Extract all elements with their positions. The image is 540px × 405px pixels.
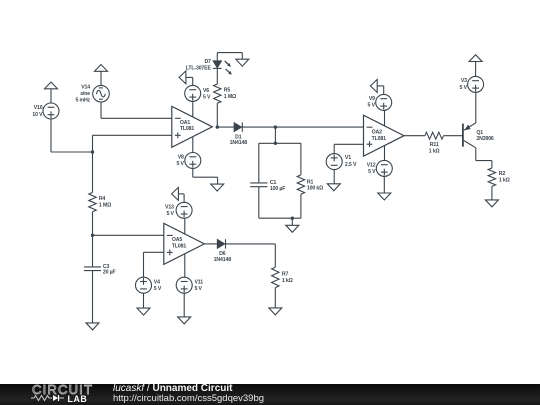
- ground under C3: [86, 323, 99, 330]
- svg-text:100 kΩ: 100 kΩ: [307, 186, 323, 192]
- wire Q1 emitter to V3: [475, 92, 477, 123]
- svg-text:V14: V14: [81, 85, 90, 91]
- wire OA1 V- pin: [192, 137, 194, 152]
- svg-text:V4: V4: [154, 280, 160, 286]
- wire R7 to ground: [274, 288, 276, 308]
- svg-text:OA1: OA1: [180, 120, 190, 126]
- svg-text:20 µF: 20 µF: [103, 270, 116, 276]
- ground under V12: [378, 193, 391, 200]
- wire D1 to OA2 - input: [242, 126, 363, 128]
- svg-text:1 kΩ: 1 kΩ: [429, 149, 440, 155]
- svg-text:100 µF: 100 µF: [270, 186, 285, 192]
- power flag (left arrow) for V13: [172, 187, 185, 202]
- svg-text:V3: V3: [461, 78, 467, 84]
- voltage source V9: [368, 94, 392, 110]
- svg-text:R4: R4: [99, 196, 106, 202]
- wire C3 to ground: [92, 271, 94, 323]
- svg-text:1N4148: 1N4148: [214, 257, 232, 263]
- capacitor C1: [250, 180, 285, 192]
- svg-text:V1: V1: [345, 155, 351, 161]
- svg-text:5 V: 5 V: [176, 161, 184, 167]
- voltage source V3: [460, 76, 484, 92]
- svg-text:V13: V13: [165, 205, 174, 211]
- wire to ground under rail: [291, 218, 293, 225]
- svg-text:R1: R1: [307, 179, 314, 185]
- voltage source V10: [32, 103, 59, 119]
- svg-text:5 V: 5 V: [154, 286, 162, 292]
- op-amp OA1: [172, 106, 213, 147]
- svg-text:1N4148: 1N4148: [230, 140, 248, 146]
- wire D6 to R7: [226, 244, 276, 267]
- wire OA5 V+ pin: [184, 219, 186, 234]
- power flag VCC for V3: [469, 55, 482, 77]
- svg-text:5 V: 5 V: [166, 211, 174, 217]
- svg-text:V8: V8: [178, 155, 184, 161]
- wire rail to C1: [258, 143, 260, 183]
- transistor Q1: [463, 123, 494, 148]
- wire OA1 V+ pin: [192, 101, 194, 117]
- svg-text:1 MΩ: 1 MΩ: [224, 94, 236, 100]
- svg-text:R5: R5: [224, 87, 231, 93]
- svg-text:R7: R7: [282, 272, 289, 278]
- op-amp OA5: [164, 223, 205, 264]
- wire OA1 output to D1: [217, 126, 234, 128]
- wire V4 to OA5 + input: [144, 252, 164, 277]
- resistor R1: [297, 175, 323, 194]
- node OA1 output junction: [216, 125, 219, 128]
- svg-text:V12: V12: [367, 163, 376, 169]
- svg-text:LTL-307EE: LTL-307EE: [186, 65, 212, 71]
- wire OA2 output to R11: [404, 135, 425, 137]
- svg-text:5 V: 5 V: [460, 85, 468, 91]
- wire node B to OA5 - input: [93, 234, 164, 236]
- svg-text:2.5 V: 2.5 V: [345, 162, 357, 168]
- power flag VCC for V10: [45, 82, 58, 103]
- wire C1/R1 top rail: [259, 142, 301, 144]
- svg-text:10 V: 10 V: [32, 112, 43, 118]
- wire R2 to ground: [491, 186, 493, 200]
- node B junction: [91, 234, 94, 237]
- node junction above C1: [274, 125, 277, 128]
- ground under V1: [327, 184, 340, 191]
- svg-text:V10: V10: [34, 105, 43, 111]
- wire node A to R4: [92, 152, 94, 192]
- wire C1 to bottom rail: [258, 187, 260, 219]
- resistor R7: [272, 267, 293, 287]
- svg-text:OA2: OA2: [372, 130, 382, 136]
- ground at D7 anode: [236, 59, 249, 66]
- voltage source V13: [165, 202, 192, 218]
- power flag (left arrow) for V9: [370, 79, 383, 94]
- wire R11 to Q1 base: [444, 135, 463, 137]
- svg-text:5 V: 5 V: [368, 169, 376, 175]
- wire R1 to bottom rail: [300, 194, 302, 218]
- svg-text:5 V: 5 V: [195, 286, 203, 292]
- wire V11 to ground: [183, 293, 185, 317]
- svg-text:TL081: TL081: [172, 243, 187, 249]
- svg-text:1 MΩ: 1 MΩ: [99, 203, 111, 209]
- ground under V11: [178, 317, 191, 324]
- wire V10 to node A: [51, 119, 93, 152]
- power flag (left arrow) for V6: [179, 71, 193, 86]
- node junction on C1/R1 rail: [274, 142, 277, 145]
- wire R5 to LED D7: [216, 69, 218, 84]
- wire R4 to node B: [92, 212, 94, 236]
- ground under V4: [137, 308, 150, 315]
- op-amp OA2: [364, 115, 405, 156]
- node junction on bottom rail: [291, 217, 294, 220]
- wire Q1 collector to R2: [476, 148, 492, 168]
- wire V1 to ground: [333, 170, 335, 184]
- svg-text:TL081: TL081: [372, 136, 387, 142]
- node A junction: [91, 150, 94, 153]
- wire V14 to OA1 - input: [101, 102, 172, 118]
- ground under C1/R1: [286, 225, 299, 232]
- svg-text:OA5: OA5: [172, 237, 182, 243]
- resistor R11: [425, 132, 444, 154]
- svg-text:V9: V9: [369, 96, 375, 102]
- power flag VCC for V14: [95, 65, 108, 86]
- ground under R7: [269, 308, 282, 315]
- svg-text:sine: sine: [80, 91, 90, 97]
- svg-text:2N3906: 2N3906: [476, 136, 494, 142]
- wire node A to OA1 + input: [93, 135, 172, 152]
- ground under V8: [211, 184, 224, 191]
- diode D1: [230, 122, 248, 146]
- voltage source V14 (sine): [75, 85, 109, 104]
- wire C1/R1 bottom rail: [259, 217, 301, 219]
- wire OA2 V+ pin: [384, 110, 386, 126]
- resistor R4: [89, 192, 111, 211]
- wire V8 to ground: [193, 168, 218, 184]
- capacitor C3: [84, 264, 116, 276]
- wire V12 to ground: [383, 176, 385, 193]
- wire node B to C3: [92, 235, 94, 267]
- voltage source V11: [176, 277, 203, 293]
- wire OA5 output to D6: [204, 243, 217, 245]
- voltage source V4: [136, 277, 162, 293]
- svg-text:R11: R11: [430, 142, 439, 148]
- svg-text:V11: V11: [195, 280, 204, 286]
- voltage source V6: [185, 85, 211, 101]
- ground under R2: [485, 200, 498, 207]
- svg-text:5 V: 5 V: [368, 103, 376, 109]
- voltage source V1: [326, 154, 357, 170]
- wire OA2 V- pin: [384, 146, 386, 160]
- svg-text:5 V: 5 V: [203, 95, 211, 101]
- svg-text:R2: R2: [499, 171, 506, 177]
- CircuitLab logo: [32, 382, 93, 397]
- wire V1 to OA2 + input: [334, 144, 363, 153]
- svg-text:5 mHz: 5 mHz: [75, 98, 90, 104]
- wire V4 to ground: [143, 293, 145, 308]
- svg-text:D7: D7: [204, 59, 211, 65]
- voltage source V12: [367, 160, 393, 176]
- svg-text:TL081: TL081: [180, 126, 195, 132]
- svg-text:V6: V6: [203, 88, 209, 94]
- svg-text:1 kΩ: 1 kΩ: [282, 278, 293, 284]
- wire OA5 V- pin: [184, 254, 186, 277]
- wire D7 anode to ground: [217, 53, 242, 61]
- wire rail to R1: [300, 143, 302, 175]
- diode D6: [214, 239, 232, 263]
- footer bar: [0, 384, 540, 405]
- resistor R2: [488, 168, 509, 186]
- resistor R5: [214, 84, 236, 103]
- wire junction stub to C1/R1 rail: [274, 127, 276, 143]
- wire OA1 output to R5: [216, 103, 218, 127]
- svg-text:1 kΩ: 1 kΩ: [499, 178, 510, 184]
- LED D7: [186, 59, 232, 75]
- voltage source V8: [176, 153, 200, 169]
